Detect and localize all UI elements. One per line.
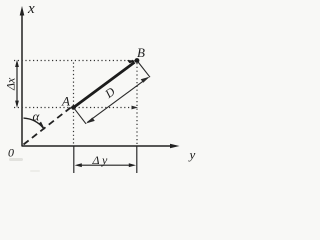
- svg-text:α: α: [33, 109, 41, 124]
- delta-y bracket right vertical below axis: [136, 147, 138, 174]
- svg-text:Δx: Δx: [4, 77, 18, 91]
- vector arrowhead at B: [127, 60, 137, 63]
- dotted horizontal line at A level: [14, 107, 133, 109]
- delta-x arrowhead bottom: [15, 101, 19, 108]
- delta-y arrowhead left: [75, 163, 82, 167]
- point B dot: [135, 58, 140, 63]
- svg-text:x: x: [27, 1, 35, 17]
- delta-x arrow (vertical double arrow left of x axis): [16, 63, 18, 106]
- dotted vertical line through B: [136, 63, 138, 145]
- delta-x arrowhead top: [15, 60, 19, 67]
- faint scan smudges: [9, 158, 23, 161]
- axis x (vertical line): [21, 12, 23, 147]
- axis y arrowhead: [170, 144, 180, 149]
- axis y (horizontal line): [22, 145, 173, 147]
- dimension arrowhead upper-right: [141, 77, 150, 83]
- dimension arrowhead lower-left: [86, 118, 95, 124]
- small arrowhead at end of A-level dotted line: [132, 106, 139, 110]
- svg-text:Δ y: Δ y: [92, 153, 108, 167]
- dashed line O to A: [24, 107, 73, 145]
- svg-text:B: B: [137, 45, 145, 60]
- angle arc arrowhead: [38, 122, 45, 130]
- svg-text:y: y: [188, 147, 196, 162]
- point A dot: [71, 105, 76, 110]
- angle arc alpha: [24, 118, 44, 129]
- dimension line for D (double arrow): [88, 78, 149, 123]
- extension line from B to dimension line: [138, 62, 150, 78]
- delta-y double arrow: [77, 164, 134, 166]
- svg-text:0: 0: [8, 146, 14, 160]
- delta-y bracket left vertical below axis: [73, 147, 75, 174]
- dotted horizontal line at B level: [14, 60, 135, 62]
- extension line from A to dimension line: [74, 109, 86, 124]
- axis x arrowhead: [20, 6, 25, 16]
- vector D thick line A to B: [74, 62, 135, 107]
- svg-text:A: A: [61, 94, 70, 109]
- delta-y arrowhead right: [129, 163, 136, 167]
- dotted vertical line through A: [73, 63, 75, 145]
